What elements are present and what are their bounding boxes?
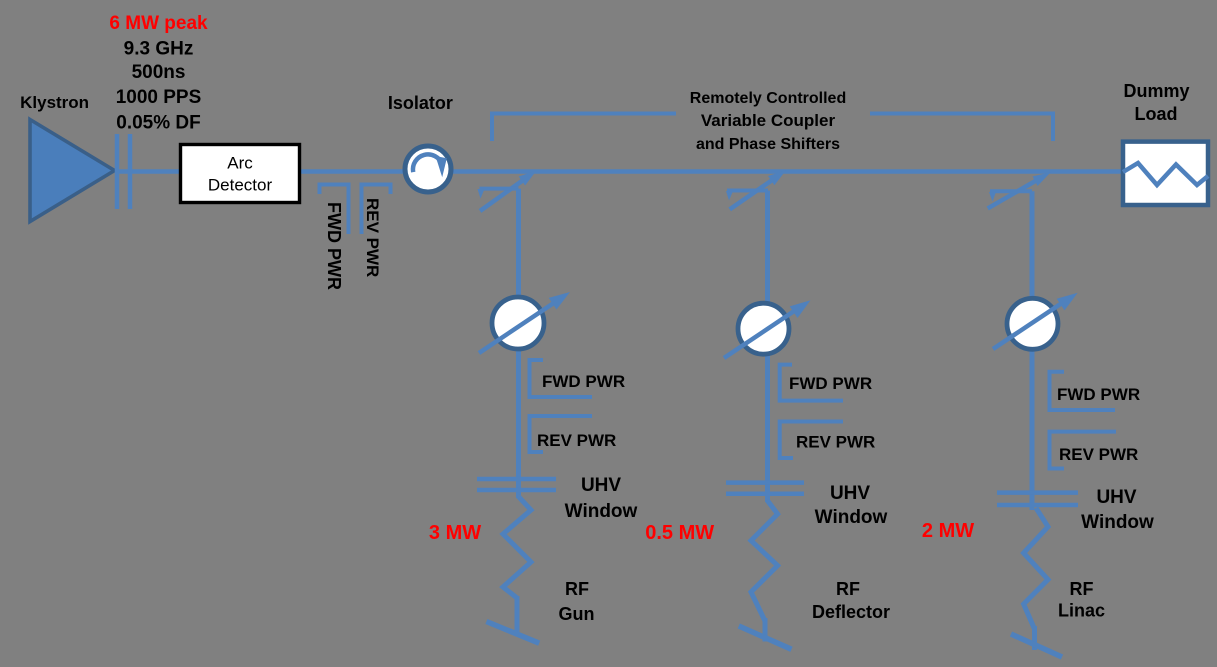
svg-text:Klystron: Klystron — [20, 93, 89, 112]
svg-text:REV PWR: REV PWR — [363, 198, 382, 277]
svg-text:RF: RF — [836, 579, 860, 599]
dummy load resistor zigzag — [1123, 163, 1208, 185]
VC2 arrow — [724, 311, 795, 359]
svg-text:Load: Load — [1135, 104, 1178, 124]
svg-text:0.5 MW: 0.5 MW — [645, 522, 714, 544]
UHV window capacitor branch 2 — [726, 483, 804, 494]
termination slash branch 2 — [739, 626, 792, 649]
isolator circle U1 — [405, 146, 451, 192]
svg-text:Remotely Controlled: Remotely Controlled — [690, 90, 846, 107]
junction 3: variable coupler arrow — [988, 180, 1038, 209]
coupler pickup REV (after arc detector) — [362, 185, 391, 235]
svg-text:Isolator: Isolator — [388, 93, 453, 113]
svg-text:500ns: 500ns — [132, 62, 186, 83]
svg-text:0.05% DF: 0.05% DF — [116, 113, 200, 134]
svg-text:Window: Window — [1081, 512, 1154, 533]
svg-text:REV PWR: REV PWR — [537, 431, 616, 450]
wire: branch 1 vertical (bottom) — [515, 596, 520, 634]
svg-text:and Phase Shifters: and Phase Shifters — [696, 136, 840, 153]
svg-text:Deflector: Deflector — [812, 602, 890, 622]
wire: branch 1 vertical (top) — [516, 189, 521, 298]
junction 1: variable coupler arrow — [480, 180, 524, 212]
wire: branch 2 vertical (top) — [765, 191, 770, 305]
svg-text:UHV: UHV — [1096, 487, 1136, 508]
svg-text:FWD PWR: FWD PWR — [542, 372, 625, 391]
svg-text:Detector: Detector — [208, 176, 273, 195]
svg-text:6 MW peak: 6 MW peak — [109, 13, 208, 34]
resistor zigzag branch 1 — [503, 496, 531, 598]
arc detector box — [181, 145, 300, 203]
svg-text:Variable Coupler: Variable Coupler — [701, 111, 836, 130]
wire: branch 3 vertical (top) — [1030, 191, 1035, 300]
VC3 arrow — [993, 303, 1062, 349]
termination slash branch 3 — [1011, 634, 1062, 657]
coupler pickup FWD (after arc detector) — [320, 185, 349, 235]
coupler bracket REV branch 1 — [530, 416, 593, 452]
UHV window capacitor branch 3 — [997, 493, 1078, 505]
dummy load box — [1123, 142, 1208, 205]
variable coupler circle VC3 — [1007, 298, 1058, 349]
junction 2: coupled-port elbow — [727, 189, 768, 193]
svg-text:2 MW: 2 MW — [922, 520, 974, 542]
svg-text:Arc: Arc — [227, 154, 253, 173]
svg-text:RF: RF — [565, 579, 589, 599]
svg-text:Linac: Linac — [1058, 601, 1105, 621]
capacitor window (two vertical plates) — [117, 134, 130, 209]
bracket: remotely controlled (right segment) — [870, 114, 1053, 142]
svg-text:3 MW: 3 MW — [429, 522, 481, 544]
UHV window capacitor branch 1 — [477, 479, 556, 490]
coupler bracket FWD branch 2 — [780, 365, 843, 401]
termination slash branch 1 — [486, 622, 539, 644]
main transmission line — [115, 169, 1123, 174]
svg-text:9.3 GHz: 9.3 GHz — [124, 39, 194, 60]
variable coupler circle VC1 — [492, 297, 544, 349]
klystron amplifier triangle — [30, 120, 115, 222]
svg-text:FWD PWR: FWD PWR — [789, 374, 872, 393]
svg-text:Window: Window — [565, 501, 638, 522]
svg-text:Gun: Gun — [559, 604, 595, 624]
isolator circulator arrow — [413, 154, 442, 172]
svg-text:REV PWR: REV PWR — [1059, 445, 1138, 464]
svg-text:FWD PWR: FWD PWR — [1057, 385, 1140, 404]
svg-text:1000 PPS: 1000 PPS — [116, 87, 202, 108]
junction 1: coupled-port elbow — [480, 187, 519, 191]
svg-text:UHV: UHV — [581, 475, 621, 496]
VC1 arrow — [479, 304, 553, 354]
bracket: remotely controlled (left segment) — [492, 114, 676, 142]
wire: branch 1 vertical (mid) — [516, 348, 521, 498]
svg-text:Window: Window — [815, 507, 888, 528]
wire: branch 2 vertical (mid) — [765, 353, 770, 502]
resistor zigzag branch 2 — [751, 500, 778, 621]
svg-text:RF: RF — [1070, 579, 1094, 599]
wire: branch 3 vertical (bottom) — [1032, 626, 1037, 650]
svg-text:REV PWR: REV PWR — [796, 433, 875, 452]
svg-text:FWD PWR: FWD PWR — [324, 202, 344, 290]
coupler bracket FWD branch 1 — [530, 360, 593, 397]
svg-text:Dummy: Dummy — [1123, 81, 1189, 101]
junction 3: coupled-port elbow — [990, 189, 1032, 193]
junction 2: variable coupler arrow — [730, 180, 773, 210]
coupler bracket REV branch 3 — [1050, 432, 1117, 469]
wire: branch 2 vertical (bottom) — [763, 618, 768, 642]
wire: branch 3 vertical (mid) — [1030, 348, 1035, 510]
resistor zigzag branch 3 — [1024, 508, 1048, 629]
coupler bracket FWD branch 3 — [1050, 372, 1116, 410]
coupler bracket REV branch 2 — [780, 422, 843, 459]
svg-text:UHV: UHV — [830, 483, 870, 504]
variable coupler circle VC2 — [738, 303, 789, 354]
